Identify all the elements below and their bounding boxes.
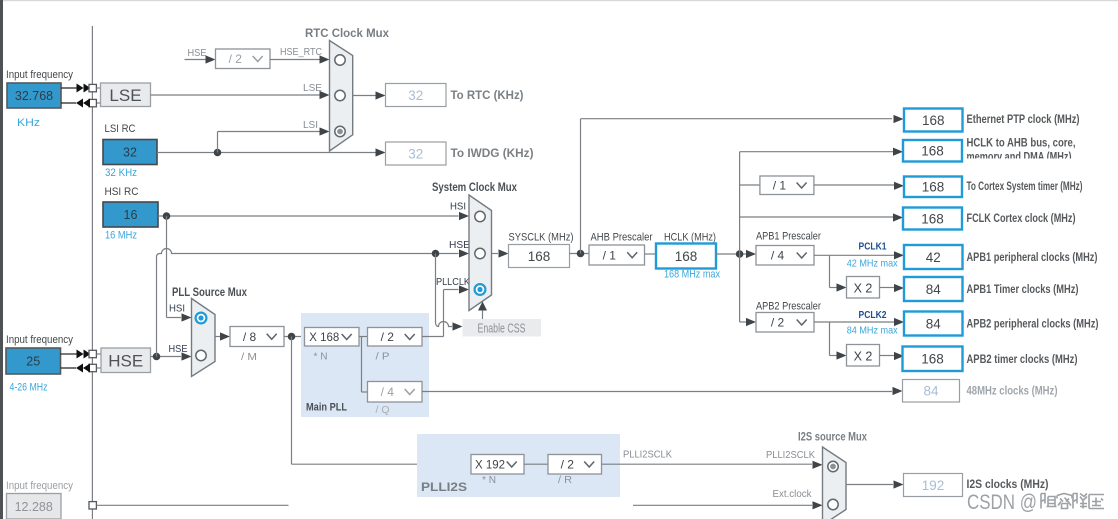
mux System Clock Mux xyxy=(469,195,492,311)
svg-text:HSE: HSE xyxy=(169,343,188,355)
svg-text:168: 168 xyxy=(921,211,944,226)
wire LSE box return xyxy=(96,102,100,104)
wire N branch to Q xyxy=(361,337,363,393)
svg-text:192: 192 xyxy=(922,478,945,493)
svg-text:CSDN @: CSDN @ xyxy=(967,490,1037,514)
svg-text:/ 2: / 2 xyxy=(381,330,395,344)
wire HSI to system mux xyxy=(158,215,459,217)
wire I2S N to R xyxy=(524,463,548,465)
svg-text:APB1 peripheral clocks (MHz): APB1 peripheral clocks (MHz) xyxy=(967,252,1098,264)
wire SYSCLK output xyxy=(492,253,499,255)
svg-text:/ 2: / 2 xyxy=(229,52,243,66)
svg-text:Ext.clock: Ext.clock xyxy=(773,488,813,500)
wire RTC mux output xyxy=(353,95,376,97)
svg-text:FCLK Cortex clock (MHz): FCLK Cortex clock (MHz) xyxy=(967,213,1076,225)
dropdown PLL Q divider /4 xyxy=(368,382,423,403)
svg-text:PLLI2S: PLLI2S xyxy=(421,482,467,494)
input box HSE 25 xyxy=(6,348,61,374)
dropdown PLL P divider /2 xyxy=(368,328,423,347)
wire handle to LSE box xyxy=(96,87,100,89)
svg-text:168: 168 xyxy=(922,180,945,195)
svg-text:HSE_RTC: HSE_RTC xyxy=(280,46,322,58)
svg-text:HSI: HSI xyxy=(450,201,466,213)
wire I2S mux output xyxy=(846,484,893,486)
arrow into SYSCLK box xyxy=(499,249,509,257)
wire cortex row to divider xyxy=(740,184,760,186)
block X2 APB2 multiplier xyxy=(847,345,880,367)
svg-text:* N: * N xyxy=(482,474,496,486)
wire SYSCLK to AHB xyxy=(570,253,591,255)
svg-text:32.768: 32.768 xyxy=(15,89,53,103)
svg-text:32: 32 xyxy=(408,146,423,161)
arrows back to HSE oscillator xyxy=(83,364,90,373)
wire PLLI2SCLK to I2S mux xyxy=(602,463,813,465)
handle square I2S ckin xyxy=(89,502,96,509)
output box APB2 peripheral 84 xyxy=(904,312,963,336)
svg-text:X 168: X 168 xyxy=(309,330,339,344)
svg-text:APB2 timer clocks (MHz): APB2 timer clocks (MHz) xyxy=(967,354,1078,366)
output box Ethernet PTP 168 xyxy=(904,109,963,132)
wire 48MHz from Q output xyxy=(422,391,892,393)
svg-text:LSE: LSE xyxy=(109,86,141,105)
junction HSE branch xyxy=(153,353,161,361)
wire PCLK2 row xyxy=(814,321,894,323)
svg-text:84: 84 xyxy=(926,316,942,331)
output box HCLK 168 blue xyxy=(656,244,716,269)
output box APB1 peripheral 42 xyxy=(904,245,963,269)
svg-text:/ M: / M xyxy=(241,351,257,363)
arrows into LSE rail xyxy=(77,84,84,93)
svg-text:Ethernet PTP clock (MHz): Ethernet PTP clock (MHz) xyxy=(967,114,1080,126)
svg-text:168: 168 xyxy=(675,249,698,264)
svg-text:SYSCLK (MHz): SYSCLK (MHz) xyxy=(509,232,574,244)
wire cortex row xyxy=(814,184,894,186)
arrow into cortex box xyxy=(894,182,904,190)
dropdown AHB prescaler /1 xyxy=(589,245,645,265)
arrow HSE_RTC into RTC mux xyxy=(320,55,330,63)
wire M to N xyxy=(284,336,305,338)
arrow ext clock into I2S mux xyxy=(813,501,823,509)
arrow into fclk box xyxy=(893,213,903,221)
arrow into X2 APB1 xyxy=(837,283,847,291)
wire HSE to Enable CSS with hop xyxy=(436,254,453,327)
arrow PLLI2SCLK into I2S mux xyxy=(813,461,823,469)
dropdown PLL M divider /8 xyxy=(230,327,284,347)
svg-text:X 2: X 2 xyxy=(854,350,873,364)
svg-text:X 192: X 192 xyxy=(475,458,505,472)
arrow HSE into system mux xyxy=(459,249,469,257)
dropdown cortex divider /1 xyxy=(760,176,814,195)
arrows back to oscillator xyxy=(83,99,90,108)
wire APB2 timer branch xyxy=(829,322,831,356)
arrows into HSE rail xyxy=(77,350,84,359)
svg-text:To RTC (KHz): To RTC (KHz) xyxy=(451,90,524,102)
svg-text:/ 4: / 4 xyxy=(381,385,395,399)
radio HSE_RTC input xyxy=(335,55,345,65)
wire fclk row xyxy=(740,216,894,218)
arrow into 48MHz box xyxy=(893,387,903,395)
wire APB1 timer branch xyxy=(829,255,831,287)
svg-text:/ Q: / Q xyxy=(376,404,390,416)
svg-text:* N: * N xyxy=(314,351,328,363)
wire return to input box xyxy=(61,102,76,104)
arrow into I2S clocks box xyxy=(894,480,904,488)
block X2 APB1 multiplier xyxy=(847,277,880,299)
svg-text:84: 84 xyxy=(923,384,939,399)
wire LSI up branch xyxy=(217,132,219,153)
radio PLLI2SCLK selected xyxy=(828,461,838,471)
dropdown APB2 prescaler /2 xyxy=(756,313,814,333)
svg-text:I2S source Mux: I2S source Mux xyxy=(798,432,867,444)
wire N to P xyxy=(359,336,368,338)
radio PLL HSI selected xyxy=(196,313,207,324)
wire apb2 row entry xyxy=(740,321,748,323)
output box To RTC value 32 xyxy=(386,84,447,107)
svg-text:AHB Prescaler: AHB Prescaler xyxy=(591,232,653,244)
svg-text:HSE: HSE xyxy=(188,47,207,59)
input box 32.768 KHz xyxy=(7,83,61,108)
wire HSI down branch xyxy=(166,216,168,318)
wire branch down to PLLI2S xyxy=(291,337,293,465)
wire LSE to RTC mux xyxy=(151,94,320,96)
svg-text:168: 168 xyxy=(528,249,551,264)
svg-text:84 MHz max: 84 MHz max xyxy=(847,325,899,337)
svg-text:168: 168 xyxy=(921,352,944,367)
wire HSE up to system mux with hop xyxy=(157,249,459,357)
wire X2 to APB2 timer box xyxy=(880,355,895,357)
radio PLL HSE xyxy=(196,350,206,360)
svg-text:168: 168 xyxy=(921,144,944,159)
radio Ext clock xyxy=(828,499,838,509)
svg-text:/ 4: / 4 xyxy=(771,249,785,263)
wire PCLK1 row xyxy=(814,254,894,256)
svg-text:PLLI2SCLK: PLLI2SCLK xyxy=(623,449,672,461)
svg-text:16 MHz: 16 MHz xyxy=(105,230,137,242)
radio sys HSE xyxy=(475,248,485,258)
arrow into IWDG box xyxy=(376,148,386,156)
svg-text:RTC Clock Mux: RTC Clock Mux xyxy=(305,28,390,40)
radio LSI input selected xyxy=(335,126,345,136)
svg-text:32: 32 xyxy=(123,146,137,160)
arrow into APB1 prescaler xyxy=(746,250,756,258)
svg-text:168 MHz max: 168 MHz max xyxy=(664,269,720,281)
wire HCLK right xyxy=(716,253,748,255)
svg-text:32 KHz: 32 KHz xyxy=(105,167,137,179)
wire ethernet ptp branch xyxy=(580,119,582,254)
svg-text:/ R: / R xyxy=(558,474,572,486)
svg-text:To Cortex System timer (MHz): To Cortex System timer (MHz) xyxy=(967,181,1083,193)
handle square LSE in xyxy=(89,84,96,91)
svg-text:42: 42 xyxy=(926,250,941,265)
svg-text:Input frequency: Input frequency xyxy=(6,480,74,492)
svg-text:16: 16 xyxy=(124,208,138,222)
svg-text:Input frequency: Input frequency xyxy=(6,69,74,81)
svg-text:LSI RC: LSI RC xyxy=(105,123,136,135)
output box I2S clocks 192 xyxy=(904,474,963,497)
plate PLLI2S xyxy=(417,434,620,497)
arrow into To RTC box xyxy=(376,91,386,99)
svg-text:/ 1: / 1 xyxy=(773,179,787,193)
svg-text:APB1 Timer clocks (MHz): APB1 Timer clocks (MHz) xyxy=(967,284,1079,296)
arrow into APB1 timer box xyxy=(894,284,904,292)
radio sys HSI xyxy=(475,211,485,221)
arrow LSE into RTC mux xyxy=(320,91,330,99)
wire HSE box return xyxy=(96,367,101,369)
svg-text:HCLK to AHB bus, core,: HCLK to AHB bus, core, xyxy=(967,138,1076,150)
junction HSI branch xyxy=(163,212,171,220)
dropdown PLLI2S R divider /2 xyxy=(548,455,602,475)
arrow into APB2 peripheral box xyxy=(894,318,904,326)
output box 48MHz clocks value 84 xyxy=(903,380,960,403)
wire hclk branch vertical xyxy=(739,152,741,322)
dropdown PLLI2S N X192 xyxy=(471,455,524,475)
dropdown HSE RTC divider /2 xyxy=(216,49,271,69)
svg-text:PLLCLK: PLLCLK xyxy=(436,276,470,288)
svg-text:84: 84 xyxy=(926,282,942,297)
wire input to LSE handle xyxy=(61,87,77,89)
wire main vertical input rail xyxy=(91,26,93,519)
svg-text:LSE: LSE xyxy=(303,82,322,94)
svg-text:System Clock Mux: System Clock Mux xyxy=(432,182,518,194)
radio LSE input xyxy=(335,90,345,100)
arrow HSE into PLL source mux xyxy=(182,352,192,360)
wire return to HSE input box xyxy=(61,367,77,369)
wire Enable CSS to mux xyxy=(482,310,484,319)
block HSE oscillator xyxy=(101,348,151,373)
wire hclk-ahb row xyxy=(740,151,894,153)
svg-text:PCLK1: PCLK1 xyxy=(859,241,887,253)
svg-text:48MHz clocks (MHz): 48MHz clocks (MHz) xyxy=(967,386,1058,398)
svg-text:LSI: LSI xyxy=(303,119,318,131)
svg-text:HSI RC: HSI RC xyxy=(105,186,139,198)
block LSE oscillator xyxy=(101,83,151,107)
arrow into RTC divider xyxy=(206,55,216,63)
wire handle to HSE box xyxy=(96,353,101,355)
svg-text:/ 8: / 8 xyxy=(243,330,257,344)
junction HSE css branch xyxy=(432,250,440,258)
top hairline xyxy=(0,0,1118,1)
output box APB1 timer 84 xyxy=(904,277,963,301)
output box SYSCLK 168 xyxy=(509,245,570,268)
wire AHB to HCLK xyxy=(645,253,657,255)
svg-text:HSI: HSI xyxy=(169,303,185,315)
svg-text:/ 2: / 2 xyxy=(561,458,575,472)
wire ext clock segment B xyxy=(633,504,812,506)
wire PLLCLK from P output xyxy=(422,336,444,338)
wire input to HSE handle xyxy=(61,353,78,355)
watermark chinese glyphs xyxy=(1041,494,1057,509)
svg-text:PLLI2SCLK: PLLI2SCLK xyxy=(766,449,815,461)
input box 12.288 disabled xyxy=(7,494,62,519)
wire HSE stub to divider xyxy=(185,59,207,61)
arrow into X2 APB2 xyxy=(837,351,847,359)
arrow into APB2 prescaler xyxy=(746,318,756,326)
junction PLL input branch xyxy=(288,333,296,341)
handle square LSE out xyxy=(89,99,96,106)
arrow HSI into PLL source mux xyxy=(182,313,192,321)
wire LSI to IWDG xyxy=(157,152,376,154)
output box HCLK AHB 168 xyxy=(903,140,962,162)
svg-text:Main PLL: Main PLL xyxy=(306,402,347,414)
input box LSI 32 xyxy=(103,140,157,165)
arrow css up into mux xyxy=(478,302,487,311)
mux PLL Source Mux xyxy=(192,299,216,377)
button Enable CSS xyxy=(463,319,542,337)
plate Main PLL xyxy=(301,313,429,417)
output box To Cortex 168 xyxy=(904,177,962,198)
svg-text:PLL Source Mux: PLL Source Mux xyxy=(172,287,248,299)
svg-text:25: 25 xyxy=(26,355,40,369)
svg-text:Enable CSS: Enable CSS xyxy=(478,322,526,336)
svg-text:4-26 MHz: 4-26 MHz xyxy=(10,382,48,394)
output box To IWDG value 32 xyxy=(386,142,447,165)
wire divider to RTC mux xyxy=(270,59,320,61)
svg-text:168: 168 xyxy=(922,113,945,128)
wire ext clock segment A xyxy=(96,504,288,506)
mux I2S source Mux xyxy=(823,447,847,519)
svg-text:/ P: / P xyxy=(376,351,390,363)
junction LSI branch xyxy=(214,149,222,157)
svg-text:HSE: HSE xyxy=(108,352,143,371)
arrow LSI into RTC mux xyxy=(320,127,330,135)
left panel edge xyxy=(0,0,3,519)
arrow into hclk-ahb box xyxy=(893,148,903,156)
wire HSE box to PLL mux xyxy=(151,356,182,358)
svg-text:HSE: HSE xyxy=(449,239,470,251)
svg-text:/ 1: / 1 xyxy=(603,248,617,262)
arrow into APB1 peripheral box xyxy=(894,251,904,259)
arrow into /M divider xyxy=(220,332,230,340)
junction HCLK branch xyxy=(736,250,744,258)
input box HSI 16 xyxy=(103,202,158,227)
svg-text:32: 32 xyxy=(408,88,423,103)
svg-text:Input frequency: Input frequency xyxy=(6,334,74,346)
wire PLL mux output xyxy=(215,336,220,338)
svg-text:KHz: KHz xyxy=(17,117,40,129)
arrow into Enable CSS xyxy=(453,322,463,330)
svg-text:X 2: X 2 xyxy=(854,282,873,296)
svg-text:APB2 Prescaler: APB2 Prescaler xyxy=(756,301,821,313)
dropdown PLL N multiplier X168 xyxy=(305,328,360,347)
handle square HSE out xyxy=(89,364,96,371)
svg-text:/ 2: / 2 xyxy=(771,316,785,330)
svg-text:APB2 peripheral clocks (MHz): APB2 peripheral clocks (MHz) xyxy=(967,319,1099,331)
svg-text:APB1 Prescaler: APB1 Prescaler xyxy=(756,231,821,243)
wire X2 to APB1 timer box xyxy=(880,287,895,289)
dropdown APB1 prescaler /4 xyxy=(756,246,814,266)
junction ethernet branch xyxy=(577,250,585,258)
radio sys PLLCLK selected xyxy=(475,284,486,295)
arrow into ethernet box xyxy=(894,115,904,123)
svg-text:To IWDG (KHz): To IWDG (KHz) xyxy=(451,148,534,160)
mux RTC Clock Mux xyxy=(330,41,353,152)
svg-text:12.288: 12.288 xyxy=(15,500,53,514)
svg-text:PCLK2: PCLK2 xyxy=(859,309,887,321)
svg-text:HCLK (MHz): HCLK (MHz) xyxy=(664,232,716,244)
handle square HSE in xyxy=(89,350,96,357)
arrow PLLCLK into system mux xyxy=(459,285,469,293)
arrow into APB2 timer box xyxy=(894,352,904,360)
svg-text:42 MHz max: 42 MHz max xyxy=(847,258,899,270)
output box FCLK 168 xyxy=(903,208,962,230)
output box APB2 timer 168 xyxy=(903,347,963,372)
arrow HSI into system mux xyxy=(459,212,469,220)
